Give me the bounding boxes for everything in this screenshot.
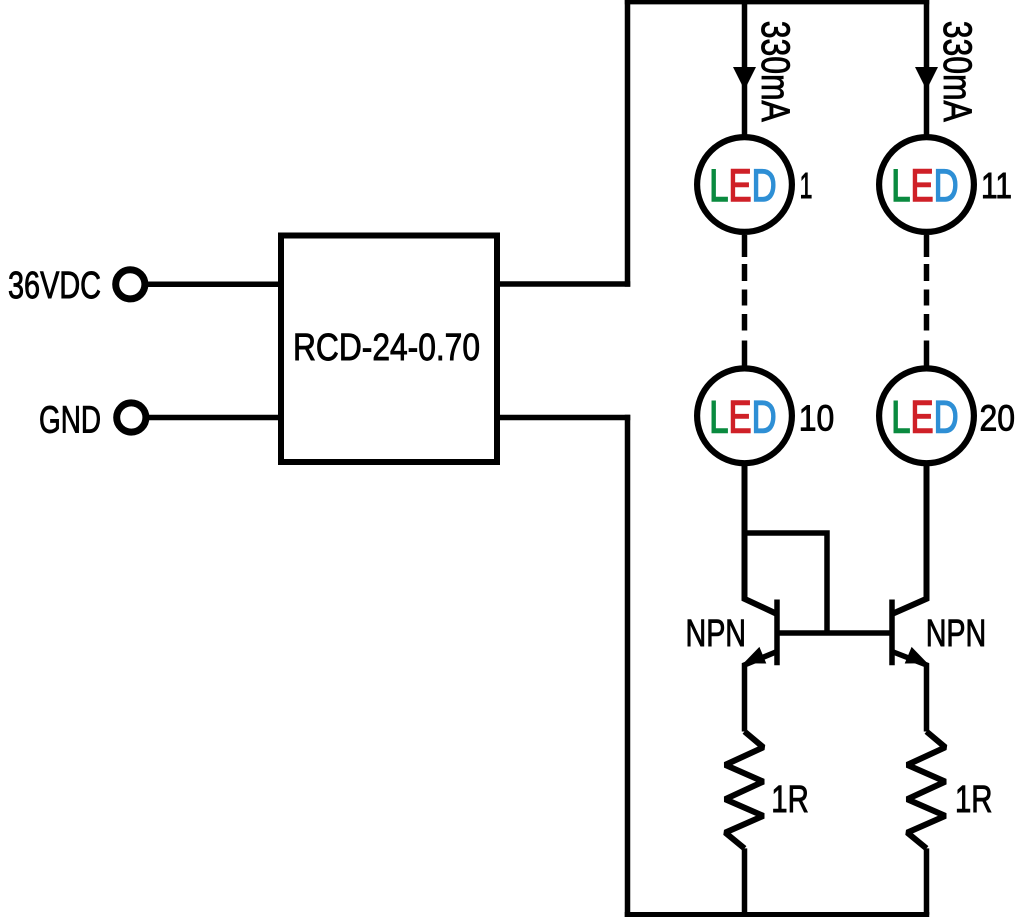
wire diode-connect branch (collector to bases): [745, 533, 828, 633]
LED 11: [879, 137, 974, 232]
wire stub below LED11: [924, 235, 930, 257]
wire 36VDC input: [148, 282, 281, 288]
transistor Q2 NPN: [892, 600, 928, 732]
resistor R1 1R: [725, 732, 763, 849]
converter box U1 RCD-24-0.70: [281, 236, 497, 463]
wire stub above LED20: [924, 341, 930, 367]
wire collector Q2: [892, 466, 927, 614]
wire bottom rail: [625, 912, 930, 917]
wire stub below LED1: [742, 235, 748, 257]
wire base tie: [777, 630, 892, 636]
wire stub above LED10: [742, 341, 748, 367]
dashed series wire string 1: [742, 264, 748, 281]
wire left vertical lower (converter to bottom rail): [625, 415, 631, 917]
svg-text:LED: LED: [891, 391, 958, 443]
svg-text:LED: LED: [709, 391, 776, 443]
svg-text:LED: LED: [709, 159, 776, 211]
svg-text:330mA: 330mA: [935, 21, 979, 123]
LED 1: [697, 137, 792, 232]
svg-text:GND: GND: [39, 398, 101, 440]
svg-text:330mA: 330mA: [753, 21, 797, 123]
wire R2 to bottom rail: [924, 848, 930, 914]
wire collector Q1: [745, 466, 778, 614]
svg-text:20: 20: [980, 398, 1016, 439]
svg-text:1: 1: [800, 165, 813, 206]
svg-text:LED: LED: [891, 159, 958, 211]
wire LED string 2 drop: [924, 0, 930, 135]
wire top rail: [625, 0, 929, 4]
svg-text:NPN: NPN: [686, 612, 747, 654]
resistor R2 1R: [907, 732, 945, 849]
wire converter bottom output: [497, 415, 630, 421]
dashed series wire string 2: [924, 264, 930, 281]
svg-text:10: 10: [799, 398, 835, 439]
wire converter top output: [497, 281, 630, 287]
terminal 36VDC: [116, 270, 145, 299]
svg-text:1R: 1R: [955, 778, 993, 820]
current arrow string 2: [915, 67, 938, 90]
svg-text:36VDC: 36VDC: [8, 264, 101, 306]
wire LED string 1 drop: [742, 0, 748, 135]
wire R1 to bottom rail: [742, 848, 748, 914]
svg-text:RCD-24-0.70: RCD-24-0.70: [293, 326, 480, 368]
LED 10: [697, 368, 792, 463]
current arrow string 1: [733, 67, 756, 90]
wire GND input: [149, 415, 281, 421]
svg-text:NPN: NPN: [926, 612, 987, 654]
svg-text:11: 11: [981, 165, 1012, 206]
svg-text:1R: 1R: [771, 778, 809, 820]
terminal GND: [117, 403, 146, 432]
LED 20: [879, 368, 974, 463]
wire left vertical upper (top rail to converter output): [625, 0, 631, 287]
transistor Q1 NPN: [744, 600, 778, 732]
